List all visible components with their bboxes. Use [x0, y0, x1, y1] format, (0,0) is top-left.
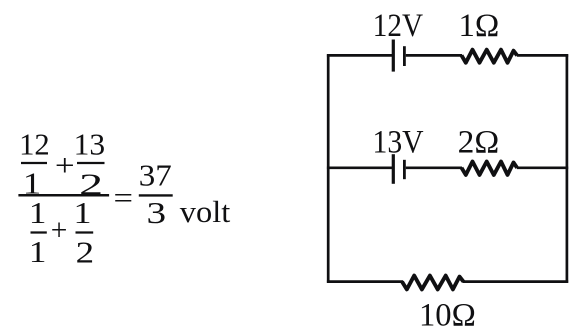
- svg-text:1Ω: 1Ω: [459, 8, 500, 44]
- math bar (1/2): [76, 231, 94, 233]
- battery B2 long plate: [392, 154, 395, 184]
- svg-text:12V: 12V: [373, 8, 423, 44]
- math main fraction bar: [18, 194, 109, 197]
- wire top-right segment: [517, 54, 568, 57]
- svg-text:1: 1: [29, 234, 47, 269]
- wire top-mid segment: [406, 54, 462, 57]
- svg-text:13V: 13V: [373, 124, 424, 160]
- wire top-left segment: [327, 54, 392, 57]
- battery B1 short plate: [403, 46, 406, 66]
- svg-text:1: 1: [74, 195, 92, 230]
- battery B2 short plate: [403, 160, 406, 179]
- wire middle-mid segment: [406, 166, 462, 169]
- svg-text:+: +: [55, 147, 75, 182]
- svg-text:10Ω: 10Ω: [419, 298, 476, 330]
- math bar (1/1): [31, 231, 47, 233]
- wire middle-right segment: [517, 166, 568, 169]
- svg-text:13: 13: [74, 127, 106, 162]
- resistor R1 zigzag: [462, 50, 518, 63]
- svg-text:2: 2: [76, 235, 95, 270]
- svg-text:=: =: [114, 180, 134, 215]
- wire left vertical: [327, 54, 330, 283]
- svg-text:2Ω: 2Ω: [458, 124, 500, 160]
- math bar (37/3): [139, 194, 173, 196]
- svg-text:12: 12: [19, 127, 50, 162]
- resistor R3 zigzag: [402, 276, 463, 290]
- svg-text:volt: volt: [180, 194, 231, 229]
- svg-text:37: 37: [139, 158, 172, 193]
- battery B1 long plate: [392, 40, 395, 72]
- wire bottom-left segment: [327, 280, 403, 283]
- svg-text:+: +: [51, 212, 68, 247]
- math bar under 13: [77, 162, 105, 164]
- svg-text:3: 3: [147, 195, 167, 230]
- svg-text:1: 1: [29, 195, 47, 230]
- math bar under 12: [21, 162, 47, 164]
- resistor R2 zigzag: [462, 162, 518, 175]
- wire bottom-right segment: [463, 280, 569, 283]
- wire right vertical: [566, 54, 569, 283]
- wire middle-left segment: [327, 166, 392, 169]
